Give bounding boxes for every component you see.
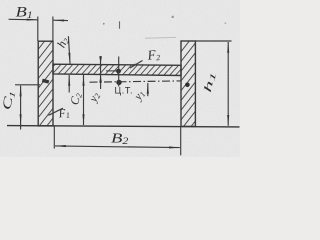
vertical line through centroid dots [118, 57, 120, 87]
paper specks [172, 16, 174, 18]
extension tick at web centroid level [106, 70, 117, 72]
B1 extension line right [52, 17, 54, 42]
B1 dimension arrow left [9, 18, 38, 21]
scan noise overlay [0, 0, 240, 157]
centroid dot of web F2 [116, 69, 121, 74]
h1 dimension line [227, 42, 229, 126]
faint artifact line near F2 [145, 36, 176, 39]
F2 leader line [130, 61, 143, 69]
paper background [0, 0, 240, 157]
F1 leader line [49, 108, 64, 115]
stray tick above web [119, 21, 121, 29]
h2 upper arrow (down to web top) [68, 36, 70, 63]
F2 leader arrowhead [129, 63, 136, 69]
C1 dimension line [20, 86, 22, 125]
C1 tail below baseline [20, 126, 22, 130]
h1 top extension line [196, 40, 232, 42]
centroid dash in left column [42, 80, 49, 82]
C2 dimension line [83, 75, 85, 125]
y2 up arrowhead at web bottom [99, 75, 102, 83]
bottom baseline [7, 126, 240, 127]
web F2 (hatched bar) [53, 64, 181, 75]
centroid axis (dash-dot) [90, 81, 182, 82]
right flange column [181, 41, 195, 126]
B1 dimension arrow right [53, 19, 68, 21]
main centroid dot (Ts.T.) [116, 80, 121, 85]
y1 dimension line (up to axis) [147, 83, 149, 96]
B2 extension line left [53, 126, 55, 149]
y2 down arrowhead at web top [99, 56, 102, 64]
h2 lower arrow (up to web bottom) [68, 75, 70, 93]
C1 extension line [15, 84, 40, 86]
B2 dimension line [55, 146, 180, 148]
y2 dimension line [100, 56, 102, 89]
left flange column [38, 41, 53, 126]
stray dot [103, 23, 105, 25]
centroid dot in right column [185, 83, 190, 88]
B2 extension line right [180, 127, 182, 156]
B1 extension line left [37, 17, 39, 42]
